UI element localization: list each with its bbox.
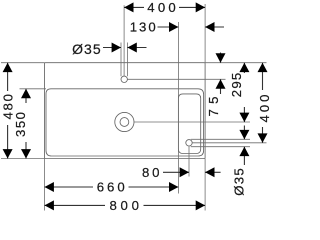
arrow 480 down — [3, 149, 13, 158]
drain inner circle — [120, 118, 129, 127]
dim 660 line — [45, 186, 94, 188]
tap hole circle — [121, 76, 127, 82]
svg-text:130: 130 — [130, 20, 156, 35]
ext hole top tangent — [191, 138, 250, 140]
dim 295 shafts — [243, 63, 245, 73]
ext right edge up — [204, 4, 206, 63]
dim O35 top leaders — [103, 47, 121, 49]
ext tap center up — [123, 5, 125, 76]
dim 80 line — [163, 171, 189, 173]
arrow 800 left — [45, 200, 54, 210]
ext hole down — [188, 146, 190, 177]
ext left edge down — [44, 159, 46, 211]
basin inner rim — [46, 89, 204, 156]
arrow 75 down (above) — [216, 53, 226, 62]
arrow 80 outside left-pointing — [205, 167, 214, 177]
arrow 400right up — [258, 63, 268, 72]
ext right edge down — [204, 159, 206, 211]
arrow 295 up — [239, 63, 249, 72]
arrow O35top right-pointing — [112, 43, 121, 53]
arrow 350 up — [21, 89, 31, 98]
small hole circle — [186, 140, 192, 146]
arrow 130 outside left-pointing — [205, 22, 214, 32]
arrow 400right down — [258, 133, 268, 142]
basin outer rect — [45, 63, 206, 159]
arrow 660 left — [45, 182, 54, 192]
arrow 295 down — [239, 113, 249, 122]
arrow 75 up (below) — [216, 79, 226, 88]
dim O35 right shafts — [243, 126, 245, 140]
ext hole bottom tangent — [191, 146, 250, 148]
arrow 130 right-pointing — [169, 22, 178, 32]
svg-text:295: 295 — [229, 73, 244, 98]
dim 75 shafts — [220, 53, 222, 63]
arrow O35right down — [239, 130, 249, 139]
arrow 800 right — [196, 200, 205, 210]
svg-text:Ø35: Ø35 — [231, 168, 246, 196]
svg-text:350: 350 — [13, 112, 28, 137]
arrow 660 right — [169, 182, 178, 192]
ext drain center line right — [134, 121, 250, 123]
ext tap tangent right — [126, 43, 128, 77]
dim 400 top line — [124, 6, 144, 8]
svg-text:400: 400 — [147, 0, 176, 15]
tray recess — [178, 94, 200, 154]
svg-text:660: 660 — [97, 180, 125, 195]
arrow 80 right-pointing — [180, 167, 189, 177]
svg-text:400: 400 — [257, 95, 272, 123]
ext hole center line right — [192, 142, 266, 144]
arrow 480 up — [3, 63, 13, 72]
ext ledge left — [20, 88, 47, 90]
dim 800 line — [45, 204, 106, 206]
arrow 350 down — [21, 149, 31, 158]
ext front edge left — [1, 158, 45, 160]
arrow O35top left-pointing — [127, 43, 136, 53]
svg-text:800: 800 — [109, 198, 139, 213]
dim 400 right shafts — [262, 63, 264, 90]
dim 480 shafts — [7, 63, 9, 91]
arrow 400top left — [124, 2, 133, 12]
dim 350 shafts — [25, 89, 27, 103]
svg-text:80: 80 — [142, 165, 160, 180]
svg-text:Ø35: Ø35 — [72, 41, 101, 57]
ext tap center line right — [127, 78, 225, 80]
ext top edge right — [205, 62, 266, 64]
ext top edge left — [1, 62, 45, 64]
ext tray-left up and down — [177, 22, 179, 194]
ext tap tangent left — [120, 43, 122, 77]
drain outer circle — [115, 112, 134, 131]
dim 130 line — [158, 26, 179, 28]
svg-text:75: 75 — [206, 97, 221, 117]
arrow 400top right — [196, 2, 205, 12]
arrow O35right up — [239, 147, 249, 156]
